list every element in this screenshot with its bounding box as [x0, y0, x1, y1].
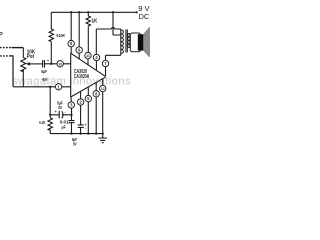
- svg-text:12: 12: [101, 87, 105, 91]
- svg-text:0.01: 0.01: [60, 119, 69, 125]
- svg-text:510K: 510K: [56, 33, 65, 39]
- svg-text:DC: DC: [139, 12, 150, 21]
- svg-text:µF: µF: [62, 125, 66, 131]
- svg-text:3V: 3V: [73, 141, 77, 146]
- svg-text:swagatam innovations: swagatam innovations: [12, 75, 131, 87]
- svg-text:CA3020A: CA3020A: [74, 74, 90, 80]
- svg-text:P: P: [0, 32, 3, 38]
- svg-text:5.1K: 5.1K: [39, 120, 45, 125]
- svg-text:1K: 1K: [92, 19, 98, 25]
- svg-text:6V: 6V: [42, 77, 48, 82]
- svg-text:11: 11: [86, 54, 90, 58]
- svg-text:5µF: 5µF: [41, 69, 47, 74]
- svg-text:10: 10: [58, 62, 62, 66]
- svg-text:Pot: Pot: [27, 54, 35, 60]
- svg-text:3V: 3V: [58, 105, 62, 110]
